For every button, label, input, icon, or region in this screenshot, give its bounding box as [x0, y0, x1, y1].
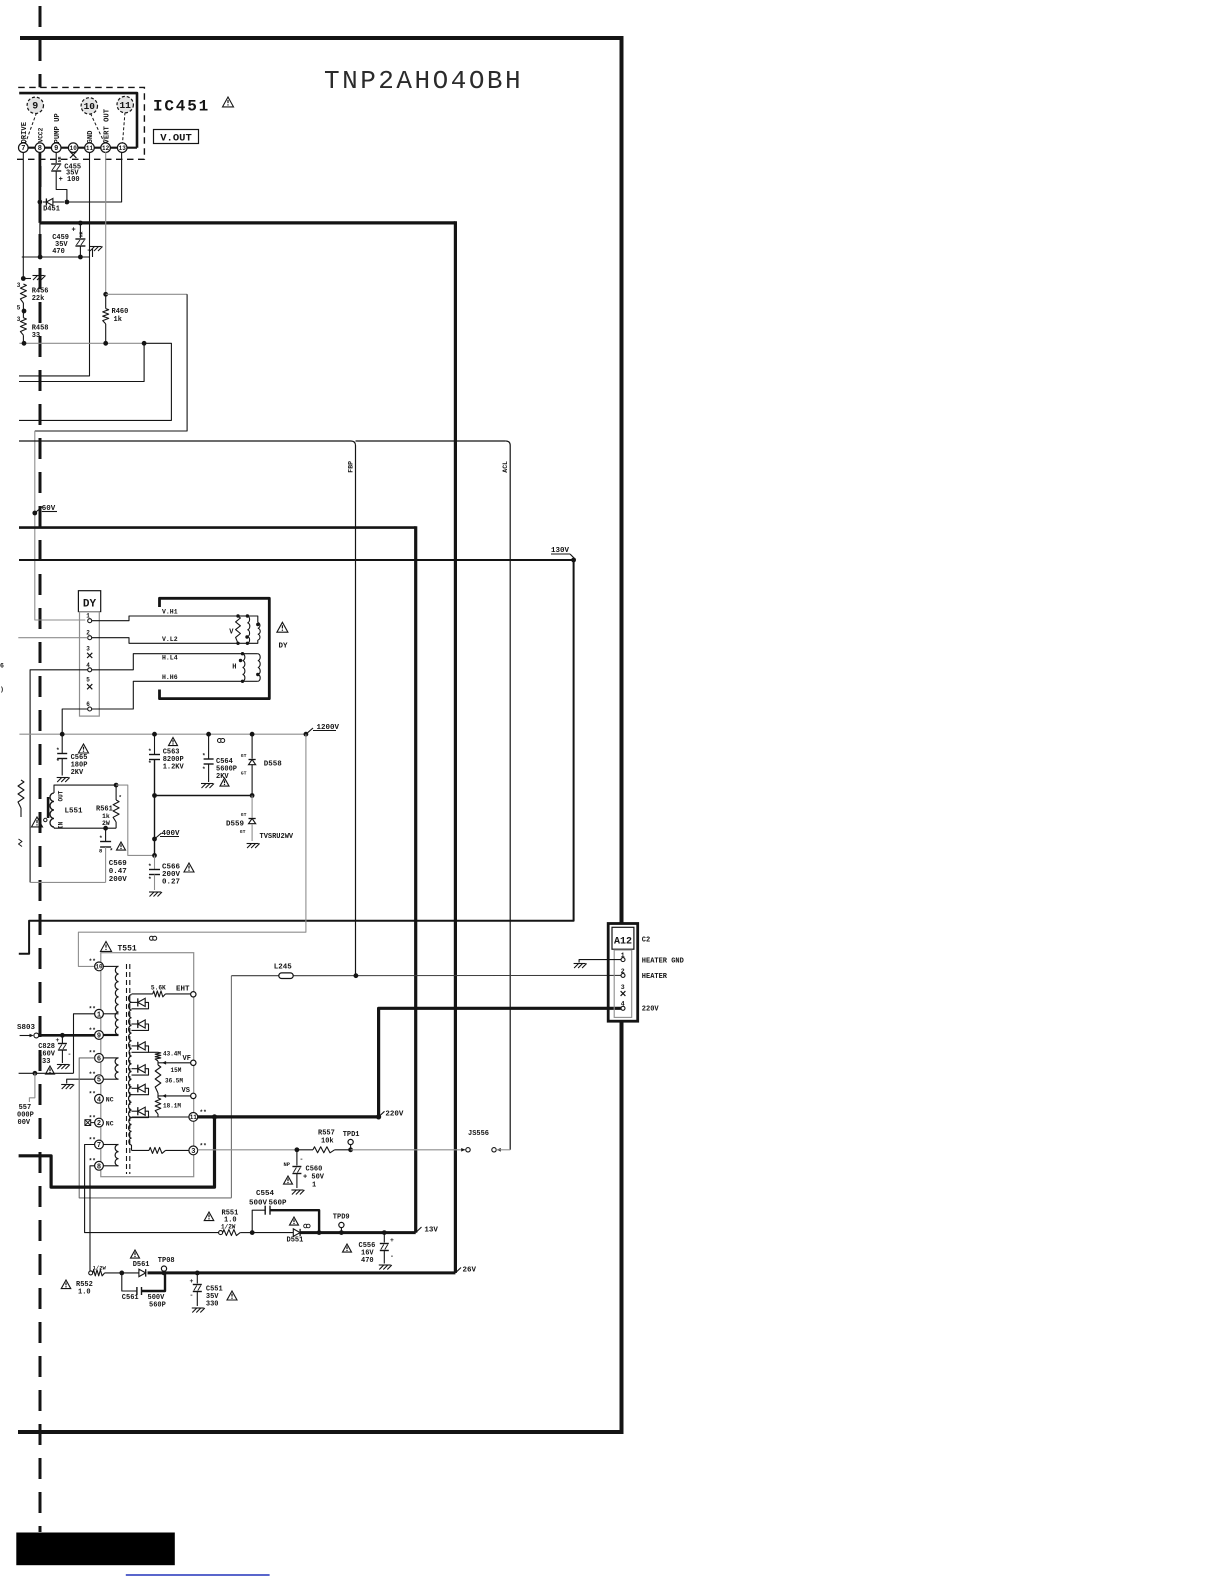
130V wire down and exit left — [19, 560, 574, 954]
EHT tap with 5.6K — [132, 993, 153, 995]
svg-text:15M: 15M — [171, 1067, 182, 1074]
svg-text:NC: NC — [106, 1097, 114, 1104]
svg-text:10: 10 — [84, 101, 96, 112]
capacitor C455 — [51, 163, 61, 165]
svg-text:NC: NC — [106, 1120, 114, 1127]
T551 secondary winding with split diodes — [129, 995, 132, 1118]
svg-text:D558: D558 — [264, 761, 283, 769]
svg-text:C2: C2 — [642, 937, 650, 945]
diode D558 — [251, 734, 253, 758]
svg-text:9: 9 — [54, 145, 58, 153]
svg-text:9: 9 — [32, 102, 38, 113]
wire pin7 to 13V line — [85, 1145, 219, 1233]
svg-text:S803: S803 — [17, 1024, 36, 1032]
220V thick wire pin11 to A12 pin4 — [198, 1115, 379, 1118]
svg-text:7: 7 — [21, 145, 25, 153]
60V feed wire down to DY pin1 — [35, 431, 86, 620]
svg-text:470: 470 — [361, 1257, 374, 1265]
13V rail vertical thick down — [414, 526, 417, 1232]
T551 pin 11 — [189, 1113, 198, 1122]
svg-text:VF: VF — [183, 1055, 191, 1063]
svg-text:11: 11 — [190, 1114, 198, 1121]
capacitor C569 — [105, 828, 107, 841]
heater wire with L245 — [231, 975, 278, 977]
svg-text:GT: GT — [240, 829, 246, 835]
wire pin12 VERT OUT (gray) — [105, 152, 107, 294]
IC451 waveform callout circle 9 — [26, 113, 37, 143]
svg-text:VERT OUT: VERT OUT — [104, 108, 112, 143]
svg-text:TPD1: TPD1 — [343, 1131, 360, 1139]
internal rectifier diode 3 — [132, 1045, 138, 1047]
page frame top border — [20, 36, 624, 40]
svg-text:8: 8 — [97, 1163, 101, 1171]
svg-text:0.47: 0.47 — [109, 868, 127, 876]
svg-text:10: 10 — [95, 964, 103, 971]
capacitor C563 — [154, 734, 156, 754]
svg-text:22k: 22k — [32, 295, 45, 303]
svg-text:3: 3 — [621, 984, 625, 991]
svg-text:C569: C569 — [109, 860, 128, 868]
svg-text:TNP2AHO4OBH: TNP2AHO4OBH — [324, 66, 523, 96]
IC451 pin 11 — [85, 143, 95, 153]
internal resistor to pin3 — [132, 1149, 150, 1151]
wire pin6 route (gray) — [79, 1058, 231, 1198]
ground below C564 — [201, 784, 214, 789]
capacitor C564 — [208, 734, 210, 759]
capacitor C556 — [382, 1230, 387, 1235]
DY connector body — [80, 612, 100, 717]
svg-text:1200V: 1200V — [317, 724, 340, 732]
svg-text:13: 13 — [119, 145, 127, 152]
ground below C560 — [291, 1190, 304, 1195]
capacitor C459 — [79, 223, 81, 238]
svg-text:5.6K: 5.6K — [151, 985, 166, 992]
svg-text:12: 12 — [102, 145, 110, 152]
wire C to left edge — [19, 343, 171, 420]
svg-text:1: 1 — [97, 1011, 101, 1019]
svg-text:220V: 220V — [385, 1111, 404, 1119]
resistor R557 — [297, 1149, 313, 1151]
wire V.L2 — [92, 638, 238, 644]
wire pin8 VCC (26V feed) thick — [39, 152, 42, 223]
IC451 pin 13 — [117, 143, 127, 153]
T551 pin 4 — [95, 1094, 104, 1103]
svg-text:D551: D551 — [287, 1237, 304, 1245]
IC451 pin 12 — [101, 143, 111, 153]
ground at C459 — [92, 249, 94, 257]
svg-text:6: 6 — [97, 1055, 101, 1063]
svg-text:L245: L245 — [274, 964, 293, 972]
svg-text:470: 470 — [52, 248, 65, 256]
page frame bottom border — [18, 1430, 624, 1434]
svg-text:D559: D559 — [226, 821, 245, 829]
V.OUT function label — [154, 130, 199, 144]
ground below D559 — [247, 844, 260, 849]
svg-text:JS556: JS556 — [468, 1130, 489, 1138]
svg-text:-: - — [390, 1253, 394, 1260]
svg-text:8: 8 — [38, 145, 42, 153]
VS tap and terminal — [158, 1095, 191, 1097]
warning triangle next to IC451 — [223, 97, 234, 107]
svg-text:1.2KV: 1.2KV — [163, 764, 185, 772]
svg-text:*: * — [148, 748, 152, 755]
svg-text:+: + — [56, 1037, 60, 1044]
svg-text:11: 11 — [86, 145, 94, 152]
svg-text:**: ** — [200, 1143, 207, 1150]
13V rail horizontal thick — [19, 526, 416, 529]
internal rectifier diode 1 — [132, 1001, 138, 1003]
internal rectifier diode 2 — [132, 1023, 138, 1025]
warning triangle T551 — [101, 942, 112, 952]
wire 1200V to T551 pin10 (gray) — [78, 734, 306, 966]
wire pin3 to JS556 (gray) — [198, 1149, 297, 1151]
IC451 body box — [19, 93, 137, 148]
svg-text:*: * — [56, 758, 60, 765]
test point TPD9 — [339, 1230, 344, 1235]
wire A12 pin1 to ground — [579, 960, 621, 963]
wire C569 to DY pin4 line — [30, 881, 106, 883]
capacitor C565 — [61, 734, 63, 753]
svg-text:*: * — [148, 863, 152, 870]
svg-text:+: + — [390, 1237, 394, 1244]
220V loop to page left — [212, 1114, 217, 1119]
L551 loop top wire — [54, 785, 116, 793]
wire pin8 to R552 — [90, 1166, 95, 1271]
T551 pin 9 — [95, 1031, 104, 1040]
IC451 pin 9 — [51, 143, 61, 153]
26V label — [455, 1268, 461, 1273]
svg-text:H: H — [232, 664, 236, 672]
svg-text:**: ** — [89, 1158, 96, 1165]
internal rectifier diode 5 — [132, 1087, 138, 1089]
T551 pin 8 — [95, 1161, 104, 1170]
1200V rail — [19, 733, 306, 735]
svg-text:V.H1: V.H1 — [162, 609, 178, 616]
13V thick segment — [300, 1231, 416, 1234]
svg-text:33: 33 — [42, 1058, 50, 1066]
capacitor C828 — [61, 1035, 63, 1043]
wire R561 top to 400V node (gray) — [116, 785, 154, 855]
ground below C565 — [57, 778, 70, 783]
IC451 pin 8 — [35, 143, 45, 153]
svg-text:0.27: 0.27 — [162, 879, 180, 887]
svg-text:9: 9 — [97, 1033, 101, 1041]
svg-text:V.L2: V.L2 — [162, 636, 178, 643]
blue underline — [126, 1574, 270, 1576]
svg-text:VCC2: VCC2 — [38, 127, 45, 142]
svg-text:*: * — [99, 835, 103, 842]
svg-text:560P: 560P — [269, 1200, 288, 1208]
svg-text:DY: DY — [279, 643, 289, 651]
svg-text:13V: 13V — [424, 1227, 438, 1235]
svg-text:26V: 26V — [463, 1267, 477, 1275]
capacitor C566 — [152, 853, 157, 858]
svg-text:3: 3 — [86, 645, 90, 652]
svg-text:2KV: 2KV — [216, 773, 229, 781]
svg-text:00V: 00V — [18, 1119, 31, 1127]
svg-text:*: * — [202, 766, 206, 773]
svg-text:GND: GND — [87, 130, 95, 144]
svg-text:C560: C560 — [306, 1166, 323, 1174]
diode D561 — [119, 1271, 124, 1276]
IC451 dashed outline box — [8, 87, 144, 159]
svg-text:43.4M: 43.4M — [163, 1051, 181, 1058]
ground below C828 — [57, 1065, 70, 1070]
ground stub near R456 — [21, 276, 26, 281]
resistor R458 — [22, 303, 24, 318]
130V rail wire — [19, 559, 574, 561]
VF tap and terminal — [158, 1062, 191, 1064]
svg-text:*: * — [56, 747, 60, 754]
wire H.L4 — [92, 654, 243, 670]
T551 outline box (gray) — [101, 953, 194, 1177]
svg-text:**: ** — [89, 1027, 96, 1034]
svg-text:*: * — [202, 753, 206, 760]
jumper JS556 — [461, 1148, 465, 1152]
svg-text:C554: C554 — [256, 1190, 275, 1198]
svg-text:A12: A12 — [614, 937, 632, 948]
svg-text:T551: T551 — [118, 945, 137, 954]
svg-text:L551: L551 — [65, 808, 84, 816]
svg-text:60V: 60V — [42, 505, 56, 513]
resistor R456 — [20, 284, 26, 303]
svg-text:10k: 10k — [321, 1138, 334, 1146]
svg-text:*: * — [148, 760, 152, 767]
link C563-D558 bottoms — [155, 795, 253, 797]
vert-out routing wire D — [106, 293, 187, 295]
svg-text:5: 5 — [97, 1077, 101, 1085]
internal rectifier diode 4 — [132, 1068, 138, 1070]
400V label — [155, 833, 162, 839]
wire DY pin6 to 1200V node — [62, 709, 87, 734]
svg-text:R557: R557 — [318, 1130, 335, 1138]
svg-text:**: ** — [89, 1091, 96, 1098]
svg-text:NP: NP — [284, 1161, 291, 1168]
ACL joins JS556 — [496, 1149, 510, 1151]
T551 pin 5 — [95, 1075, 104, 1084]
svg-text:TPD9: TPD9 — [333, 1214, 350, 1222]
X mark on pin 10 (N.C.) — [70, 152, 76, 158]
13V label — [416, 1227, 422, 1233]
T551 pin 1 — [95, 1009, 104, 1018]
H deflection coil — [243, 653, 258, 655]
T551 winding pin7-pin8 — [103, 1144, 118, 1146]
svg-text:3: 3 — [17, 282, 21, 289]
stub to C557 (off page) — [29, 1073, 35, 1102]
resistor R460 — [103, 292, 108, 297]
ground below C551 — [192, 1308, 205, 1313]
svg-text:HEATER: HEATER — [642, 973, 668, 981]
svg-text:GT: GT — [241, 812, 247, 818]
svg-text:H.L4: H.L4 — [162, 655, 178, 662]
T551 primary winding upper — [103, 965, 118, 967]
svg-text:33: 33 — [32, 332, 40, 340]
redacted black block — [16, 1533, 175, 1566]
svg-text:OUT: OUT — [58, 790, 65, 801]
svg-text:): ) — [0, 686, 4, 693]
svg-text:TP08: TP08 — [158, 1257, 175, 1265]
svg-text:330: 330 — [206, 1301, 219, 1309]
svg-text:**: ** — [89, 1071, 96, 1078]
T551 pin 2 — [95, 1118, 104, 1127]
T551 winding pin6-pin5 — [103, 1057, 118, 1059]
svg-text:EHT: EHT — [176, 986, 190, 994]
svg-text:18.1M: 18.1M — [163, 1103, 181, 1110]
svg-text:+ 100: + 100 — [59, 176, 80, 184]
svg-text:1: 1 — [312, 1182, 316, 1190]
svg-text:IC451: IC451 — [153, 98, 210, 116]
svg-text:NR: NR — [79, 231, 85, 237]
svg-text:HEATER GND: HEATER GND — [642, 957, 684, 965]
cut resistor at left page edge — [18, 780, 24, 808]
wire DY pin2 from left edge (gray) — [18, 637, 87, 639]
svg-text:DRIVE: DRIVE — [21, 121, 29, 143]
svg-text:V.OUT: V.OUT — [160, 132, 192, 144]
svg-text:H.H6: H.H6 — [162, 674, 178, 681]
wire pin8 net continues to C459 line — [39, 223, 41, 257]
svg-text:-: - — [68, 1051, 72, 1058]
internal rectifier diode 6 — [132, 1110, 138, 1112]
400V node vertical — [154, 796, 156, 856]
svg-text:5: 5 — [86, 677, 90, 684]
svg-text:200V: 200V — [109, 876, 128, 884]
ground below C566 — [149, 892, 162, 897]
warning triangle DY — [277, 622, 288, 632]
page frame right border — [620, 36, 624, 924]
resistor R561 — [115, 785, 117, 800]
capacitor C561 — [122, 1273, 137, 1291]
DY label box — [78, 591, 100, 612]
svg-text:400V: 400V — [162, 830, 181, 838]
IC451 waveform callout circle 10 — [91, 114, 105, 144]
svg-text:**: ** — [89, 1050, 96, 1057]
wire DY pin4 — [30, 670, 88, 883]
wire pin7 down — [22, 152, 24, 278]
svg-text:ACL: ACL — [502, 461, 509, 473]
svg-text:VS: VS — [182, 1087, 190, 1095]
inductor L551 — [50, 793, 54, 827]
svg-text:36.5M: 36.5M — [165, 1078, 183, 1085]
svg-text:500V: 500V — [249, 1200, 268, 1208]
svg-text:1.0: 1.0 — [78, 1289, 91, 1297]
svg-text:2KV: 2KV — [71, 769, 84, 777]
V deflection coil — [238, 615, 247, 617]
svg-text:GT: GT — [241, 771, 247, 777]
T551 pin 6 — [95, 1054, 104, 1063]
svg-text:**: ** — [89, 958, 96, 965]
gray interconnect wire y343 — [19, 342, 144, 344]
resistor R551 — [219, 1231, 223, 1235]
svg-text:1k: 1k — [114, 316, 122, 324]
1200V label — [306, 728, 313, 734]
focus divider chain — [149, 1051, 159, 1053]
wire pin11 net to left edge (A) — [19, 257, 90, 376]
svg-text:*: * — [148, 876, 152, 883]
svg-text:3: 3 — [191, 1148, 195, 1156]
wire B to left edge — [19, 343, 144, 381]
wire pin1 to left edge — [74, 1014, 95, 1074]
svg-text:D561: D561 — [133, 1261, 150, 1269]
A12 label box — [612, 927, 634, 949]
T551 pin 10 — [95, 962, 104, 971]
svg-text:FBP: FBP — [348, 461, 355, 473]
node junction D451/C455/pin13 — [65, 200, 70, 205]
svg-text:2: 2 — [97, 1120, 101, 1128]
svg-text:**: ** — [200, 1109, 207, 1116]
26V thick segment — [148, 1271, 456, 1274]
wire pin9 to C455 — [55, 152, 57, 163]
svg-text:4: 4 — [97, 1096, 101, 1104]
IC451 waveform callout circle 11 — [123, 112, 126, 143]
EHT terminal — [191, 992, 196, 997]
wire C459 ground line y257 — [22, 256, 90, 258]
svg-text:*: * — [110, 848, 114, 855]
wire junction to pin13 — [67, 152, 122, 202]
wire pin5 to ground — [67, 1079, 95, 1083]
CD mark above T551 — [150, 936, 154, 940]
T551 core dashes — [126, 964, 128, 1174]
diode D451 — [43, 201, 46, 203]
capacitor C551 — [195, 1271, 200, 1276]
T551 pin 7 — [95, 1140, 104, 1149]
svg-text:1k: 1k — [102, 813, 110, 820]
resistor R552 — [89, 1271, 93, 1275]
svg-text:560P: 560P — [149, 1302, 166, 1310]
L551 loop bottom wire — [54, 827, 116, 829]
wire y1073 to page edge — [19, 1072, 74, 1074]
svg-text:-: - — [190, 1292, 194, 1299]
CD mark — [218, 739, 222, 743]
svg-text:C561: C561 — [122, 1294, 139, 1302]
220V label — [379, 1111, 385, 1117]
svg-text:**: ** — [89, 1006, 96, 1013]
capacitor C560 — [295, 1147, 300, 1152]
svg-text:R460: R460 — [112, 308, 129, 316]
svg-text:1/2W: 1/2W — [93, 1265, 107, 1272]
60V rail label — [32, 511, 37, 516]
wire V.H1 — [92, 616, 238, 621]
svg-text:-: - — [300, 1156, 304, 1163]
IC451 pin 10 — [68, 143, 78, 153]
box-X mark at pin2 — [85, 1120, 91, 1126]
wire winding to pin11 — [132, 1116, 189, 1118]
IC451 pin 7 — [19, 143, 29, 153]
capacitor C554 — [250, 1230, 255, 1235]
svg-text:**: ** — [89, 1136, 96, 1143]
svg-text:5: 5 — [17, 305, 21, 312]
T551 pin 3 — [189, 1146, 198, 1155]
warning near L551 — [32, 817, 43, 827]
svg-text:7: 7 — [97, 1142, 101, 1150]
diode D559 — [251, 796, 253, 818]
warning + R551 labels — [204, 1212, 214, 1221]
svg-text:PUMP UP: PUMP UP — [54, 113, 62, 144]
wire C455 to D451 junction — [56, 171, 67, 202]
svg-text:+: + — [72, 227, 76, 235]
test point TPD1 — [348, 1147, 353, 1152]
wire to JS556 — [351, 1149, 466, 1151]
gray riser to heater line — [230, 976, 232, 1198]
deflection yoke box — [160, 598, 270, 698]
page fold dashed line — [39, 6, 42, 87]
svg-text:10: 10 — [70, 145, 78, 152]
wire H.H6 — [92, 681, 243, 709]
ground below C556 — [379, 1265, 392, 1270]
FBP joins heater line — [354, 973, 359, 978]
svg-text:*: * — [119, 794, 122, 801]
26V rail vertical thick down page — [454, 221, 457, 1273]
svg-text:D451: D451 — [43, 206, 60, 214]
